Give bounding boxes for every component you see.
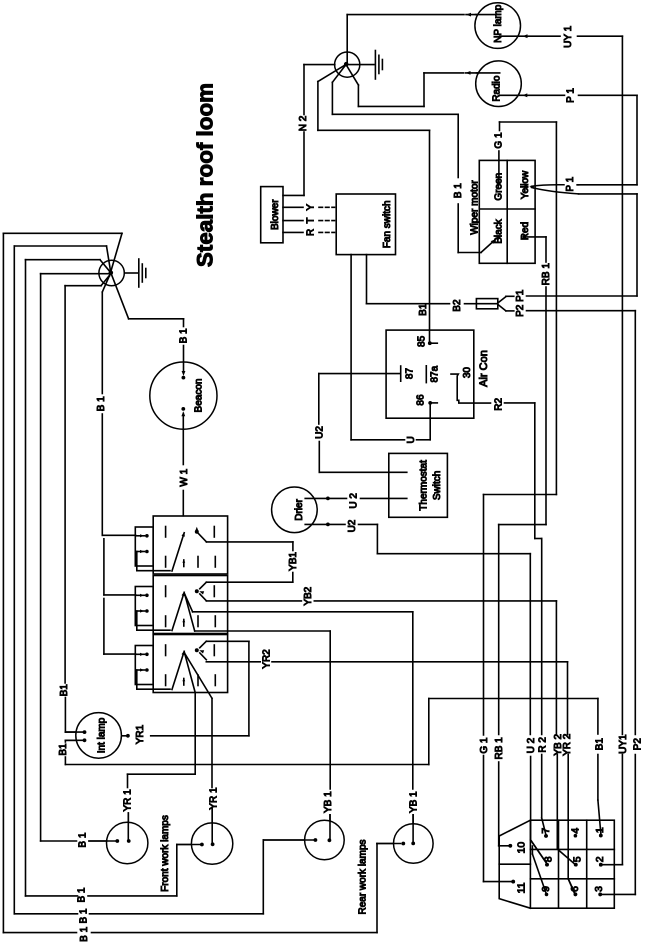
- svg-text:Stealth roof loom: Stealth roof loom: [193, 83, 218, 267]
- svg-text:87: 87: [404, 368, 415, 380]
- svg-text:U2: U2: [347, 519, 358, 532]
- svg-text:6: 6: [569, 886, 581, 892]
- svg-text:B 1: B 1: [77, 887, 88, 902]
- svg-text:Wiper motor: Wiper motor: [470, 180, 481, 235]
- svg-text:B1: B1: [595, 738, 606, 751]
- svg-text:5: 5: [572, 856, 584, 862]
- svg-text:R 2: R 2: [537, 737, 548, 753]
- svg-text:NP lamp: NP lamp: [493, 4, 504, 43]
- svg-text:Fan switch: Fan switch: [382, 200, 393, 248]
- svg-text:W 1: W 1: [179, 468, 190, 486]
- svg-text:U: U: [406, 436, 417, 443]
- svg-text:UY1: UY1: [618, 734, 629, 754]
- svg-text:Yellow: Yellow: [520, 170, 531, 199]
- svg-text:Switch: Switch: [432, 471, 443, 500]
- svg-text:86: 86: [415, 394, 426, 406]
- svg-text:Radio: Radio: [491, 75, 502, 102]
- svg-text:YR1: YR1: [135, 724, 146, 744]
- svg-text:Drier: Drier: [294, 498, 305, 520]
- svg-text:T: T: [306, 218, 317, 224]
- svg-text:B 1: B 1: [78, 832, 89, 847]
- svg-text:30: 30: [462, 367, 473, 379]
- svg-text:Int lamp: Int lamp: [97, 717, 108, 753]
- svg-text:B1: B1: [418, 303, 429, 316]
- svg-text:YR 1: YR 1: [209, 787, 220, 810]
- svg-text:U2: U2: [314, 426, 325, 439]
- svg-text:R2: R2: [494, 397, 505, 410]
- svg-text:N 2: N 2: [298, 115, 309, 131]
- svg-text:B 1: B 1: [79, 908, 90, 923]
- svg-text:Thermostat: Thermostat: [419, 460, 430, 511]
- svg-text:P2: P2: [515, 304, 526, 317]
- svg-text:YR 1: YR 1: [122, 789, 133, 812]
- svg-text:3: 3: [593, 886, 605, 892]
- svg-text:U 2: U 2: [526, 737, 537, 753]
- svg-text:Blower: Blower: [270, 199, 281, 230]
- svg-text:YR 2: YR 2: [562, 733, 573, 756]
- svg-text:G 1: G 1: [494, 132, 505, 149]
- svg-text:Air Con: Air Con: [478, 350, 490, 387]
- svg-text:B1: B1: [59, 684, 70, 697]
- svg-text:Rear work lamps: Rear work lamps: [358, 839, 369, 914]
- svg-text:P 1: P 1: [565, 176, 576, 191]
- svg-text:B 1: B 1: [179, 328, 190, 343]
- svg-text:B1: B1: [58, 743, 69, 756]
- svg-text:Beacon: Beacon: [194, 379, 205, 413]
- svg-text:YB 1: YB 1: [323, 791, 334, 813]
- svg-text:Front work lamps: Front work lamps: [160, 815, 171, 892]
- svg-text:UY 1: UY 1: [563, 25, 574, 47]
- svg-text:P2: P2: [632, 738, 643, 751]
- svg-text:11: 11: [516, 882, 528, 893]
- svg-text:YB2: YB2: [303, 586, 314, 605]
- svg-text:G 1: G 1: [479, 737, 490, 754]
- svg-text:YB1: YB1: [288, 552, 299, 571]
- svg-text:YB 1: YB 1: [409, 791, 420, 813]
- svg-text:P1: P1: [515, 289, 526, 302]
- svg-text:P 1: P 1: [565, 88, 576, 103]
- svg-text:85: 85: [416, 335, 427, 347]
- svg-text:RB 1: RB 1: [494, 737, 505, 760]
- svg-text:B 1: B 1: [79, 926, 90, 941]
- svg-text:87a: 87a: [430, 365, 441, 382]
- svg-text:Y: Y: [306, 204, 317, 211]
- svg-text:1: 1: [594, 827, 606, 833]
- svg-text:RB 1: RB 1: [541, 263, 552, 286]
- svg-text:YR2: YR2: [262, 649, 273, 669]
- svg-text:B 1: B 1: [453, 183, 464, 198]
- svg-text:U 2: U 2: [348, 493, 359, 509]
- svg-text:B2: B2: [452, 299, 463, 312]
- svg-text:4: 4: [570, 828, 582, 834]
- svg-text:10: 10: [516, 842, 528, 854]
- svg-text:7: 7: [540, 828, 552, 834]
- svg-text:B 1: B 1: [96, 396, 107, 411]
- svg-text:R: R: [306, 229, 317, 236]
- svg-text:2: 2: [594, 856, 606, 862]
- svg-text:Black: Black: [493, 218, 504, 243]
